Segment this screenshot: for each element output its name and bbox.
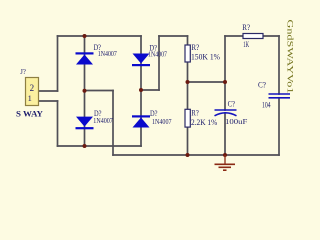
junction node bottom rail / col1 bbox=[83, 144, 87, 148]
svg-text:150K 1%: 150K 1% bbox=[191, 52, 221, 62]
svg-text:1N4007: 1N4007 bbox=[98, 49, 117, 58]
svg-text:1N4007: 1N4007 bbox=[93, 116, 113, 125]
junction node C100uF / ground rail bbox=[223, 153, 227, 157]
wire riser x225 to 1K rail bbox=[224, 36, 226, 82]
wire 1K rail bbox=[225, 35, 279, 37]
wire top AC rail bbox=[58, 35, 142, 37]
connector J7 body bbox=[26, 78, 39, 106]
svg-text:1: 1 bbox=[28, 93, 32, 103]
wire C100uF bottom lead bbox=[224, 113, 226, 155]
wire riser pin2 to top rail bbox=[57, 36, 59, 91]
wire diode column 1 bbox=[84, 36, 86, 146]
svg-text:C?: C? bbox=[228, 99, 236, 108]
junction node mid col2 bbox=[139, 88, 143, 92]
wire C104 bottom lead bbox=[278, 98, 280, 155]
wire rail 2 bbox=[159, 35, 188, 37]
wire bottom AC rail bbox=[58, 145, 142, 147]
svg-text:100uF: 100uF bbox=[225, 117, 247, 126]
diode D3 col1 bottom (points down) bbox=[76, 117, 94, 130]
svg-text:C?: C? bbox=[258, 80, 266, 90]
wire pin1 stub bbox=[39, 100, 58, 102]
diode D4 col2 bottom (points up) bbox=[132, 115, 150, 127]
wire drop to R 150K bbox=[187, 36, 189, 45]
resistor R150K body bbox=[185, 45, 190, 62]
wire diode column 2 bbox=[140, 36, 142, 146]
wire mid row left bbox=[85, 90, 114, 92]
svg-text:104: 104 bbox=[262, 100, 271, 110]
ground symbol bbox=[215, 155, 236, 170]
junction node 2.2K / ground rail bbox=[186, 153, 190, 157]
wire 2.2K bottom to ground rail bbox=[187, 127, 189, 155]
wire node row y82 bbox=[188, 81, 226, 83]
junction node R150K/R2.2K row bbox=[186, 80, 190, 84]
diode D1 col1 top (points up) bbox=[76, 52, 94, 64]
wire R150K bottom to node row bbox=[187, 62, 189, 109]
diode D2 col2 top (points down) bbox=[132, 54, 150, 67]
resistor R1K body bbox=[243, 34, 263, 39]
svg-text:J?: J? bbox=[20, 67, 26, 76]
junction node top rail / col1 bbox=[83, 34, 87, 38]
resistor R2.2K body bbox=[185, 109, 190, 127]
svg-text:S WAY: S WAY bbox=[16, 110, 43, 119]
capacitor C100uF plates bbox=[215, 110, 237, 116]
wire pin2 stub bbox=[39, 90, 58, 92]
svg-text:R?: R? bbox=[191, 42, 199, 52]
svg-text:2.2K 1%: 2.2K 1% bbox=[191, 117, 218, 127]
wire descender mid to ground rail bbox=[112, 91, 114, 156]
svg-text:R?: R? bbox=[191, 108, 199, 118]
wire ground rail bbox=[113, 154, 279, 156]
svg-text:1K: 1K bbox=[243, 40, 249, 49]
svg-text:1N4007: 1N4007 bbox=[148, 50, 167, 59]
capacitor C104 plates bbox=[269, 94, 291, 98]
wire C104 top lead bbox=[278, 36, 280, 94]
junction node riser/C100uF row bbox=[223, 80, 227, 84]
wire riser to rail 2 bbox=[158, 36, 160, 90]
svg-text:1N4007: 1N4007 bbox=[152, 117, 172, 126]
svg-text:R?: R? bbox=[242, 22, 250, 32]
wire C100uF top lead bbox=[224, 82, 226, 110]
svg-text:GndSWAYVo1: GndSWAYVo1 bbox=[286, 20, 295, 94]
junction node mid col1 bbox=[83, 89, 87, 93]
wire descender pin1 to bottom rail bbox=[57, 101, 59, 146]
svg-text:2: 2 bbox=[30, 83, 34, 93]
wire mid row right bbox=[141, 89, 159, 91]
